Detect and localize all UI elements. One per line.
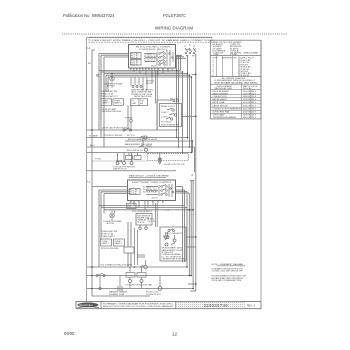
legend section divider 3 [210,83,261,85]
lock cluster label [113,167,135,171]
svg-text:MOTOR DRIVE P6: MOTOR DRIVE P6 [161,124,179,126]
svg-text:OVEN CIRCUIT WITH TIMER (ON-OF: OVEN CIRCUIT WITH TIMER (ON-OFF) + CIRCU… [91,39,212,42]
switch on bus y137 [140,136,147,139]
svg-text:DESCRIPTION: DESCRIPTION [222,57,237,59]
lock motor boxes [126,156,142,160]
bus wire y130 [87,129,177,131]
lower latch box top contacts [168,229,175,232]
EOC1 right exit wires [176,55,186,58]
center drop wires below EOC2 [156,203,158,227]
svg-text:RTD OVEN SENSOR: RTD OVEN SENSOR [132,211,152,213]
svg-text:ELEMENT 450W: ELEMENT 450W [109,294,124,296]
svg-text:316046746: 316046746 [204,303,229,308]
lower lamp boxes [101,239,125,246]
lower left label [109,291,128,296]
lower section title [129,175,170,178]
svg-text:LIMIT: LIMIT [132,103,138,105]
svg-text:TO TIMER: TO TIMER [89,135,99,137]
svg-text:MOTOR: MOTOR [107,223,115,225]
bus wire y275 [87,275,191,277]
oven door span box [148,154,189,161]
bus wire y288 [87,288,193,290]
legend color-code section [213,42,259,56]
legend note lines [215,77,259,85]
left drop wires [99,71,108,131]
op EOC2 box [128,180,176,201]
power entry labels [177,45,196,58]
svg-text:(EOC): (EOC) [152,198,158,200]
bus wire y141 [125,140,193,142]
right bundle wires [177,55,195,172]
svg-text:TOD CONNECTOR BK-22 HI-LIMI: TOD CONNECTOR BK-22 HI-LIMIT [100,265,133,267]
small switch circle on drop [97,74,99,76]
hatch element lower mid [138,254,144,258]
svg-text:COM 2: COM 2 [161,117,168,119]
op EOC1 box [129,45,176,69]
EOC2 pin stubs [131,201,163,204]
latch assembly box [160,98,182,126]
oven light switch rows [101,91,119,98]
svg-text:MAIN CIRCUIT + DOUBLE LINE: MAIN CIRCUIT + DOUBLE LINE BREAK [129,175,169,178]
EOC1 left connector wires [99,54,129,148]
junction y267 [91,266,93,268]
EOC1 label [136,47,171,68]
legend ratings table rules [210,84,261,119]
EOC1 left connector J1 [131,53,142,66]
svg-text:CODE: CODE [212,57,219,59]
legend section divider 2 [210,76,261,78]
svg-text:P1-3 R: P1-3 R [130,194,137,196]
wire into latch box [157,100,174,130]
EOC2 left connector [130,189,141,195]
svg-text:N.C. BR-11: N.C. BR-11 [161,122,172,124]
N rail right side [190,54,196,292]
svg-text:8: 8 [162,202,163,204]
legend panel outer box [210,40,261,119]
svg-text:P8 W-14 GROUND: P8 W-14 GROUND [101,248,119,250]
bus y141 vertical link [192,141,194,153]
svg-text:DE-ENERGIZED POSITION: DE-ENERGIZED POSITION [162,259,186,261]
svg-text:BR-24: BR-24 [146,145,153,147]
bus wires below EOC1 [99,71,192,78]
sensor side labels [147,218,155,223]
svg-text:SW: SW [140,103,143,105]
EOC2 pin drop wires [134,203,153,210]
svg-text:OVEN VENT FAN: OVEN VENT FAN [213,110,230,113]
spark module symbols mid [130,105,133,130]
svg-text:09/05: 09/05 [64,331,75,336]
element hash symbol [118,286,122,291]
svg-text:RANGE / ELECTRONIC OVEN CONTRO: RANGE / ELECTRONIC OVEN CONTROL W/ LOCK … [103,305,173,308]
bus wire y296 [92,295,150,297]
lock motor box pair [126,273,146,278]
svg-text:K4 DLB RELAY: K4 DLB RELAY [143,191,158,194]
EOC1 relay contacts [145,50,173,66]
svg-text:DOOR LATCH MOTOR P9: DOOR LATCH MOTOR P9 [102,127,127,130]
lower latch assembly box [160,227,186,261]
junction dot left y130 [91,129,93,131]
sensor cluster text [132,211,152,224]
right cluster circles [165,232,176,246]
sensor cluster box [136,214,152,226]
svg-text:BROIL ELEMENT BK-26 3400W: BROIL ELEMENT BK-26 3400W [128,139,157,141]
bus wire y152 [87,152,192,154]
title block cell dividers [101,302,176,309]
clock box below EOC2 [127,203,137,209]
convection fan motor label [104,83,123,88]
door lock solenoid [158,158,161,164]
junction dots lower [91,209,194,289]
lock cluster circles [116,162,133,165]
svg-text:SCHEMATIC WIRE DIAGRAM FOR: SCHEMATIC WIRE DIAGRAM FOR FGLEF387C ELE… [103,302,174,305]
svg-text:0001 W 012 V: 0001 W 012 V [243,117,257,119]
bus wire y147 [87,146,195,148]
svg-text:LOCK MOTOR SWITCH CAM: LOCK MOTOR SWITCH CAM [125,284,152,287]
svg-text:P3 BK-9: P3 BK-9 [125,118,133,120]
svg-text:CONTROL (EOC): CONTROL (EOC) [139,49,167,51]
EOC2 connector pin text [130,190,138,196]
svg-text:(EOC): (EOC) [151,66,157,68]
svg-text:UPON DATE OF MANUFACTURE: UPON DATE OF MANUFACTURE [212,279,242,282]
convection motor label [103,220,122,225]
N rail junction dots [195,74,197,285]
svg-text:LAMP 1: LAMP 1 [102,102,110,105]
EOC2 pin numbers [130,202,163,204]
svg-text:BROIL BR-24 P12: BROIL BR-24 P12 [127,150,144,152]
svg-text:CAM P6 GY-18: CAM P6 GY-18 [113,168,127,171]
EOC1 pin stubs [131,68,172,71]
oven lamp box labels [102,100,122,104]
legend terminal table [212,57,254,77]
note block [212,263,248,282]
left rail L1 wire [91,65,93,297]
svg-text:WIRING DIAGRAM: WIRING DIAGRAM [155,26,193,31]
bus wire y137 [87,137,188,139]
left rail stub top [92,50,95,65]
mid box pair upper [131,99,148,106]
mid box wires [128,222,131,267]
svg-text:LAMP 1: LAMP 1 [102,242,110,245]
svg-text:MOTOR: MOTOR [107,86,115,88]
svg-text:LAMP 2: LAMP 2 [115,242,123,245]
small circle y288 [99,287,101,289]
svg-text:COM 1: COM 1 [161,112,168,114]
mid small box pair [124,247,134,253]
legend section divider 1 [210,54,261,56]
spark igniter triangle [164,232,169,240]
legend ratings table [213,85,258,119]
temp probe cluster box [131,77,147,90]
drawing frame [87,37,262,301]
svg-text:SUPPLY PLUG: SUPPLY PLUG [240,57,255,59]
N rail connecting stubs [182,74,196,284]
lower lamp labels [102,241,123,245]
L1 entry wire lower [92,185,128,187]
lower bus wires [99,206,193,210]
svg-text:12: 12 [172,332,178,337]
part number cell halftone [176,302,245,308]
power entry symbols [185,48,196,54]
upper mid connector wires [118,105,160,161]
svg-text:LAMP 2: LAMP 2 [114,102,122,105]
svg-text:CLOSED + ALL SWITCHES IN: CLOSED + ALL SWITCHES IN OFF [212,270,244,273]
switch on bus y147 [139,145,148,151]
svg-text:TOD BK-22 HI-LIMIT: TOD BK-22 HI-LIMIT [104,135,123,137]
lower switch text rows [101,231,117,238]
upper section dashed title box [89,38,212,43]
svg-text:RECEPTACLE W-8: RECEPTACLE W-8 [134,95,152,98]
switch circle on y267 [140,265,147,269]
Electrolux logo [78,303,100,308]
EOC2 left connector wires [99,190,130,210]
wire entry marks [190,180,194,181]
svg-text:SOLENOID P10: SOLENOID P10 [146,294,161,296]
junction dots upper [111,70,193,154]
lock motor circles [129,280,144,283]
title block description text [103,302,174,308]
svg-text:N: N [192,174,194,177]
bus wire y267 [87,266,187,268]
title block outer box [76,302,261,309]
legend table vertical rules [217,56,239,77]
svg-text:W-7 P11: W-7 P11 [127,135,135,137]
bottom inter-bus connecting wires [100,260,160,289]
svg-text:P5 W-5: P5 W-5 [95,158,101,160]
svg-text:REV : A: REV : A [247,304,256,307]
svg-text:RELAY K1 N.O.: RELAY K1 N.O. [161,105,176,108]
door lock label lower [146,292,161,296]
svg-text:ELECTRONIC OVEN CONTROL: ELECTRONIC OVEN CONTROL [132,182,173,184]
convection fan motor M1 [110,74,115,89]
center drop wires below EOC1 [152,71,157,131]
power entry arrow marks [186,49,196,50]
svg-text:OVEN LIGHTS P7: OVEN LIGHTS P7 [101,96,119,98]
EOC1 pin numbers [130,69,169,71]
lower left drop wires [99,206,104,268]
svg-text:Publication No. 5995437024: Publication No. 5995437024 [63,13,115,18]
temp probe labels [131,89,154,99]
lamp lower text [102,108,122,113]
svg-text:HOUSING GROUND: HOUSING GROUND [102,111,122,113]
center drop labels [146,81,154,85]
svg-text:0020 W 120 V: 0020 W 120 V [243,111,257,113]
solenoid circle y288 [158,287,162,291]
header dotted separator [62,33,287,35]
switch symbols y275 left [96,273,105,276]
svg-text:TEMPERATURE ALARM: TEMPERATURE ALARM [213,116,236,119]
svg-text:P1-3 R: P1-3 R [131,57,138,59]
convection motor M2 [110,210,115,221]
lower right bundle [176,181,194,289]
EOC2 label [132,182,173,200]
svg-text:DOOR LOCK P10 V-40: DOOR LOCK P10 V-40 [164,164,186,166]
svg-text:75 F P4: 75 F P4 [137,222,145,224]
right cluster labels [162,248,186,261]
switch contacts on bus y130 [123,128,132,131]
svg-text:OVEN LIGHTS: OVEN LIGHTS [101,236,115,238]
mid box pair labels [132,101,145,105]
svg-text:LATCH RELAY K2: LATCH RELAY K2 [166,232,184,235]
upper section return wire y170.8 [87,170,177,172]
oven lamp boxes [101,99,124,106]
sensor circles [135,225,148,265]
svg-text:FGLEF387C: FGLEF387C [163,13,186,18]
svg-text:GY-31 P4: GY-31 P4 [147,221,155,223]
dotted wire y161 [93,158,148,162]
EOC2 relay contacts [146,184,174,197]
EOC1 connector pin text [131,54,139,67]
EOC1 pin drop wires [134,71,172,78]
svg-text:P2-3 R: P2-3 R [131,64,138,66]
